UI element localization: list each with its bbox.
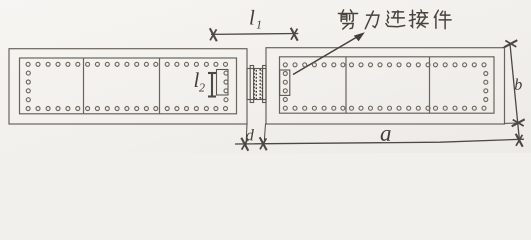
extension line left plate right edge — [246, 124, 247, 147]
connector right end bar — [263, 66, 266, 103]
dimension l2 — [208, 73, 216, 97]
left plate divider 2 — [159, 58, 161, 114]
right plate outer rectangle — [266, 48, 505, 124]
left plate top bolt row — [26, 62, 30, 66]
connector assembly between plates — [247, 66, 266, 103]
tick a right — [516, 134, 523, 147]
connector left end bar — [250, 66, 253, 103]
right plate top bolt row — [283, 63, 287, 67]
char 连 — [386, 11, 405, 27]
left plate bottom bolt row — [26, 107, 30, 111]
left plate outer rectangle — [9, 49, 247, 124]
right plate divider 2 — [429, 57, 431, 113]
left plate divider 1 — [83, 58, 85, 114]
left plate right bolt column — [224, 71, 228, 75]
text 剪力连接件 (hand drawn strokes) — [338, 10, 451, 29]
label d — [246, 129, 254, 141]
leader arrow to connector — [293, 32, 365, 74]
right plate left bolt column — [283, 72, 287, 76]
right plate bottom bolt row — [283, 106, 287, 110]
right plate right bolt column — [484, 72, 488, 76]
char 剪 — [338, 10, 357, 29]
right plate divider 1 — [345, 57, 347, 113]
connector hatch band right — [259, 69, 261, 99]
extension line right plate left edge — [264, 124, 266, 147]
label l1 — [250, 10, 254, 25]
connector rod outline — [247, 69, 266, 100]
dimension a and d baseline — [235, 124, 524, 151]
tick d left — [241, 138, 248, 151]
label a — [381, 130, 391, 141]
dimension l1 — [210, 28, 298, 42]
tick l1 left — [210, 28, 217, 41]
paper background — [0, 0, 531, 153]
tick b top — [504, 40, 517, 47]
tick b bottom — [512, 119, 525, 126]
char 件 — [434, 10, 451, 28]
extension line right plate top corner to b line — [503, 45, 510, 47]
label l2 — [195, 72, 199, 87]
right plate inner rectangle — [280, 57, 495, 113]
label b — [515, 78, 522, 89]
tick l1 right — [291, 28, 298, 41]
attachment plate on left plate — [217, 70, 229, 96]
left plate inner rectangle — [20, 58, 237, 114]
bolt holes — [26, 62, 488, 110]
char 接 — [409, 10, 428, 28]
connector hatch band left — [253, 69, 255, 99]
extension line right plate bottom edge to b line — [505, 122, 517, 124]
dimension b (right side vertical) — [503, 40, 525, 141]
attachment plate on right plate — [280, 70, 290, 95]
left plate left bolt column — [26, 71, 30, 75]
tick d right / a left — [260, 137, 267, 150]
char 力 — [365, 11, 379, 29]
